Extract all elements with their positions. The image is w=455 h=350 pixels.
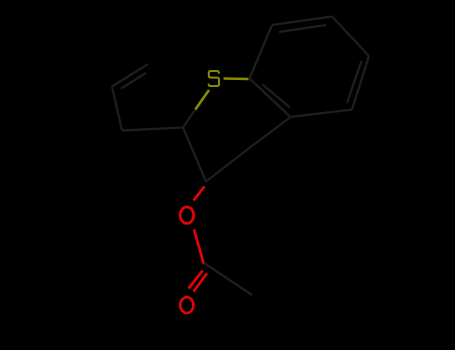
benzene ring edge BL-C8a xyxy=(250,79,291,118)
benzene ring edge TR-R xyxy=(332,17,369,57)
benzene ring edge C8a-TL xyxy=(250,25,273,79)
aromatic inner line top xyxy=(279,25,326,32)
sulfur S1 xyxy=(209,71,219,86)
double bond CH=CH2 parallel xyxy=(121,73,146,89)
bond S1-C8a xyxy=(224,77,249,80)
carbonyl C=O line 1 xyxy=(189,271,203,289)
bond C3-C4 xyxy=(206,146,252,182)
ester oxygen O xyxy=(180,207,194,223)
bond C2-C3 xyxy=(183,128,206,182)
carbonyl oxygen O xyxy=(180,297,193,313)
bond O-C(=O) xyxy=(194,230,204,265)
bond S1-C2 lower half xyxy=(183,110,195,128)
aromatic inner line right xyxy=(347,61,362,103)
bond C(=O)-CH3 xyxy=(204,263,252,295)
bond S1-C2 upper half xyxy=(195,90,209,110)
bond C4-C4a xyxy=(252,117,291,146)
carbonyl C=O line 2 xyxy=(194,273,208,291)
aromatic inner line lower-left xyxy=(263,85,291,108)
bond CH2-CH= xyxy=(112,87,122,131)
benzene ring edge R-BR xyxy=(352,56,369,110)
double bond CH=CH2 main xyxy=(112,64,148,87)
benzene ring edge BR-BL xyxy=(291,110,353,118)
bond C3-O upper red part xyxy=(194,187,205,201)
benzene ring edge TL-TR xyxy=(272,17,332,26)
bond C2-CH= (propenyl) xyxy=(122,128,183,131)
